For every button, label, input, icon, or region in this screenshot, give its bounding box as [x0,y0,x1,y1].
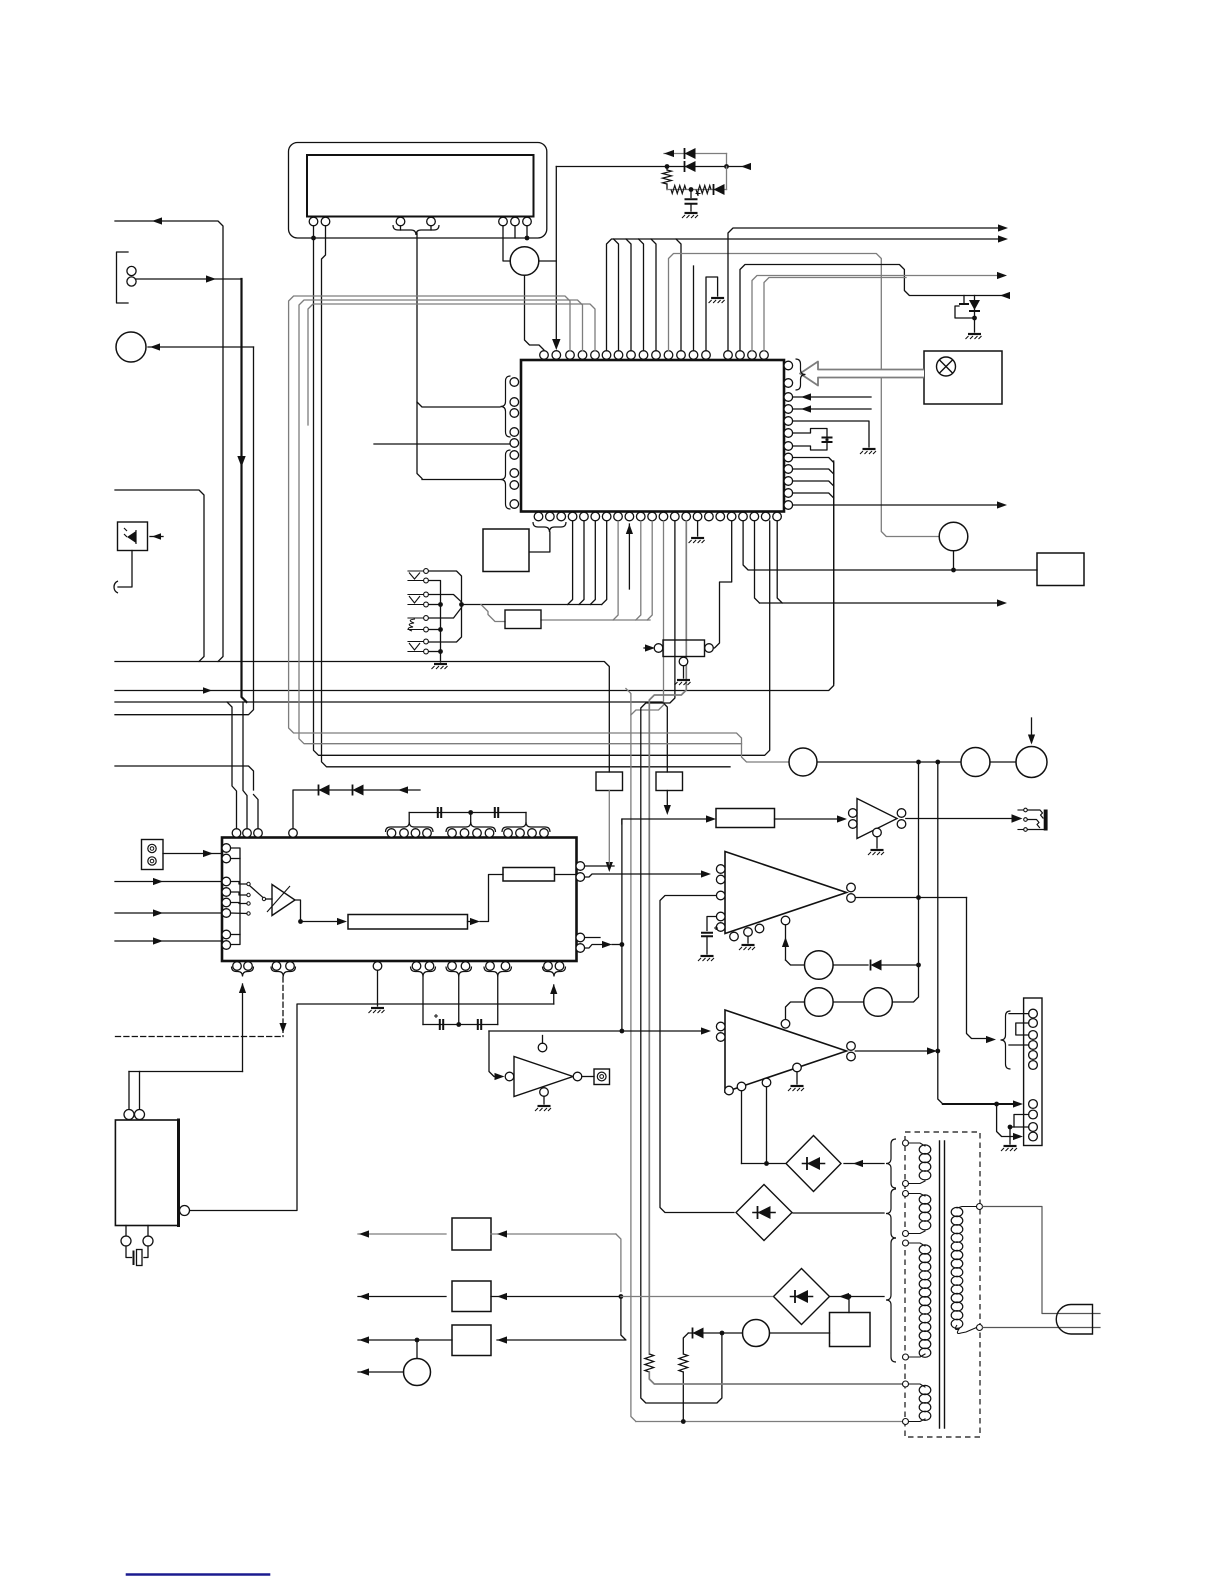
wire diode down resistor [683,1333,688,1354]
brace winding W3 [886,1238,896,1362]
wire main line y166 [556,166,748,168]
ground CN2 [434,663,447,665]
wire delay out arrow [468,921,473,923]
wire A4 gnd [796,1072,798,1084]
circle M1 [404,1359,431,1386]
ground U2 bottom [371,1007,384,1009]
wire switch leads [231,882,247,885]
wire BR3 right arrow [831,1296,885,1298]
wire A3 output [855,897,966,899]
arrow into PH1 [150,536,163,538]
brace U2 bot pins1-2 [232,967,254,977]
junction input line bus [620,1029,625,1034]
wide gray arrow to U1 [800,362,924,386]
wire A3 pin ground [747,936,749,943]
diode D1 [684,148,686,159]
wire A4 output arrow to bus [855,1050,929,1052]
CN3 pin stubs [1009,1013,1029,1015]
display pins right trio [499,217,508,226]
wire gray winding4 bottom [636,1421,903,1423]
circle VR4 [961,748,990,777]
wire U1 top pin merge [651,239,656,351]
wire A3 to VR1 with up arrow [785,925,787,960]
wire inverter feed [489,1031,500,1077]
op-amp A3 bottom slope pins [730,932,739,941]
wire U1 right pin12 arrow [793,504,998,506]
wire U2 pin t1 lead [227,702,237,829]
wire arrow up into U2 b1 [242,984,244,1072]
wire U1 pin to ground jog [706,277,718,351]
resistor R2 [671,186,686,194]
wire U2 internal left net [231,848,240,945]
wire CN2 bus b [429,581,441,663]
brace U2 bot group4 [446,967,472,977]
capacitor C6 [478,1019,481,1030]
wire U1 right pin5 to ground [793,421,869,447]
wire U1 bottom merge arrow y603 [755,521,760,603]
wire BR3 left gray [621,1296,773,1298]
op-amp A3 lower pins [716,912,725,921]
arrow on top branch [664,150,674,157]
wire U1 pins10-11 gray curls [636,521,641,620]
capacitor C1 polarized [690,190,692,198]
brace U2 top group2 [386,822,434,832]
wire CN5 to bus with arrow [136,278,242,280]
arrow into VR5 [1031,718,1033,742]
trimmer RV1 [654,644,663,653]
winding W4 terminals [903,1381,909,1387]
wire RV1 to ground [683,666,685,678]
wire left bus y490 loop [115,490,204,662]
IC U1 bottom pins [534,512,543,521]
junction cap bus [468,810,473,815]
wire VR row [817,761,961,763]
wire A1 out to delay [295,900,301,922]
wire gray line to box F1 [358,1233,446,1235]
ground right pin5 [863,448,876,450]
resistor box headphone [716,809,775,828]
ground RV1 [677,679,690,681]
U4 bottom pins [121,1236,131,1246]
wire U1 bottom pin18 to right box [743,521,1037,570]
wire left bus y714 jog [115,702,254,715]
op-amp A4 input pins [716,1022,725,1031]
wire headphone feed corner [622,819,712,824]
wire CN3 to pin4 arrow [997,1104,1016,1137]
diode D2 [684,161,686,172]
inverter A5 input pin [505,1072,514,1081]
wire bus to CN3 pin1 arrow [943,1103,1016,1105]
wire U1 pin5 left net [308,304,595,425]
wire gray bus 631 [626,689,636,1422]
IC U2 left pins [222,844,231,853]
wire to regulator box [848,1297,850,1313]
diode D3 [713,184,715,195]
AC plug [1056,1305,1092,1335]
winding W1 terminals [903,1140,909,1146]
wire bus918 down [918,762,920,898]
junction F3 line [415,1338,420,1343]
wire U2 cap bus [408,813,410,823]
bus lineout vertical [621,819,623,1031]
box A [596,772,623,791]
wire arrow into U1 right pin4 [793,408,871,410]
IC U1 body [521,360,784,512]
brace U1 bottom pins1-3 [533,522,566,532]
brace U1 right pins 1-2 [796,359,806,390]
wire F3 left [358,1339,452,1341]
wire box A bus lower [608,791,610,865]
wire hp amp ground [876,837,878,848]
ground A4 [791,1085,804,1087]
winding W2 coil [919,1195,931,1204]
junction A4 out [935,1049,940,1054]
wire display brace stem [417,233,422,479]
op-amp A4 gnd pin [793,1063,802,1072]
connector CN2 sections [409,573,420,580]
junction w4 line [681,1419,686,1424]
junction CN3 gnd [1008,1125,1013,1130]
box F2 [452,1281,491,1312]
headphone jack J2 [1024,808,1028,812]
amp A1 triangle [272,885,295,916]
wire low branch [667,189,727,191]
resistor R3 [696,186,711,194]
wire display pin1 chain [314,238,770,755]
U4 right pin [180,1206,190,1216]
brace U1 left group2 [501,450,511,509]
wire HV circle tap [539,260,557,262]
op-amp A4 triangle [725,1010,847,1092]
wire F2 right [491,1296,621,1298]
wire U2 out4 arrow to bus [585,945,604,949]
winding W4 coil [919,1385,931,1394]
brace winding W2 [886,1189,896,1238]
wire primary top to plug [983,1207,1101,1314]
photo-interrupter box PH1 [118,522,148,551]
inverter output pin [573,1072,582,1081]
wire VR1 to diode [833,964,868,966]
circle VR7 [805,988,834,1017]
display HV circle [510,247,539,276]
wire A3 cap net [707,917,716,931]
wire VR4-VR5 [990,761,1016,763]
diode glyph inside PH1 [127,531,136,543]
junction bus938 [935,760,940,765]
junction display left pins [311,236,316,241]
ground A3 [742,944,755,946]
wire U1 pin gray to circle VR2 [669,254,940,537]
circle RL1 [743,1320,770,1347]
wire inverter gnd [543,1096,545,1104]
wire left bus y661 to box A riser [115,662,609,773]
headphone amp A2 [849,809,858,818]
wire opamp2 input line [489,1030,707,1032]
resistor R5 in gray bus [645,1354,654,1372]
wire inverter out [582,1076,594,1078]
ground U1 top [711,297,724,299]
wire F1 right gray [491,1233,616,1235]
arrow into IC U1 pin2 [552,339,560,350]
wire left bus y690 long [115,461,834,691]
display left pin stubs [313,226,315,238]
resistor R1 vertical [666,167,668,171]
wire VR6-VR7 [833,1001,864,1003]
brace U2 top group3 [446,822,496,832]
wire U1 bottom pin8 gray [613,521,618,620]
connector jack J3 [594,1069,610,1085]
wire harness S to B2 [481,605,505,622]
capacitor C5 polarized [440,1019,443,1030]
wire U1 left pin5 stub [374,443,510,445]
brace U2 bot group3 [411,967,436,977]
brace U2 bot group5 [484,967,512,977]
op-amp A3 mid pin [716,891,725,900]
wire bus917 down to VR6 [892,898,918,1003]
op-amp A3 output pins [847,883,856,892]
wire U1 pin12 jog [631,521,664,715]
op-amp A3 triangle [725,852,847,934]
U4 top pins [124,1110,134,1120]
junction d-cluster right [724,164,729,169]
wire U1 top pin764 gray [764,278,906,351]
U4 bottom stubs [125,1226,127,1237]
junction bus918 [916,760,921,765]
wire U1 pin15 ground [697,521,699,536]
wire U1 pin stub floating [693,266,695,351]
wire U1 pin4 left net [299,300,742,744]
wire CN2 bus a [429,571,462,642]
crystal X2 [126,1246,132,1258]
box right K1 [1037,553,1084,586]
wire U2 pin t3 lead [254,795,259,829]
op-amp A4 slope pin [781,1020,790,1029]
wire BR1 right arrow [844,1163,884,1165]
wire CN3 ground [1009,1127,1011,1144]
bridge rectifier BR1 [786,1136,841,1192]
switch SW1 contacts [247,882,250,885]
diode D5 [692,1328,694,1339]
wire U2 bottom cap bus [422,977,424,1025]
ground hp amp [871,849,884,851]
wire U1 top pin merge [639,239,644,351]
IC U1 left pins [510,378,519,387]
wire bus938 down [938,762,943,1104]
wire VR2 to junction [953,551,955,570]
diode line above U2 [293,790,420,829]
IC U1 top pins [540,351,549,360]
op-amp A4 bottom pins [725,1086,734,1095]
box U4 [115,1120,179,1226]
wire vertical from J1 line down [253,347,255,702]
junction A1 out [298,919,303,924]
connector CN1 [142,840,164,870]
capacitor C4 [495,807,498,818]
IC U2 body [222,838,577,962]
inverter top pin [538,1043,547,1052]
switch lever [250,886,263,898]
wire A3 feedback to bus660 [660,896,734,1213]
lamp symbol [937,357,956,376]
brace winding W1 [886,1139,896,1188]
wire U2 out1 stub [585,865,614,867]
ground C7 [701,955,714,957]
junction bridge1 feed [764,1161,769,1166]
wire top branch [664,153,727,155]
circle VR2 [939,522,968,551]
wire U1 pin17 trimmer loop [710,521,732,648]
circle VR5 [1016,747,1047,778]
op-amp A3 input pins [716,865,725,874]
wire into circle J1 with arrow [148,346,254,348]
wire PH1 to edge connector arc [118,551,132,588]
wire to motor circle [416,1340,418,1359]
connector CN5 pins [127,266,136,275]
primary terminals [977,1204,983,1210]
ceramic resonator X1 [793,429,827,451]
IC U1 right pins [784,361,793,370]
wire RL1 left [722,1332,743,1334]
internal resistor box [503,868,555,882]
wire U1 left group1 stub [417,402,500,407]
wire U1 top pin merge [626,239,631,351]
junction CN3 feed [994,1102,999,1107]
circle VR1 [805,951,834,980]
junction VR2 [951,568,956,573]
primary coil [951,1207,963,1216]
wire hp out to jack [906,818,1012,820]
wire arrow into U1 right pin3 [793,396,871,398]
display pins left pair [309,217,318,226]
IC U2 top pins [232,829,241,838]
wire U1 top pin merge [676,239,681,351]
wire box B2 line [541,619,650,621]
wire RL1 right [770,1332,830,1334]
bridge rectifier BR2 [736,1185,792,1241]
ground inverter [538,1105,551,1107]
op-amp A4 output pins [847,1042,856,1051]
display outer shield box [289,143,547,239]
inverter A5 triangle [514,1057,573,1097]
display body [307,155,534,217]
wire line to box F2 [358,1296,446,1298]
junction CN2 out [459,602,464,607]
arrow line end right [741,163,751,170]
junction harness [525,236,530,241]
box F3 [452,1325,491,1356]
box B2 [505,610,541,629]
transistor Q1 [963,296,965,305]
junction RL1 line [720,1331,725,1336]
diode D4 [870,960,872,971]
op-amp A3 slope pin4 [781,916,790,925]
ground CN3 [1004,1145,1017,1147]
wire resistor to hp amp [775,818,844,820]
connector CN5 bracket [117,252,129,303]
winding W2 terminals [903,1191,909,1197]
winding W3 coil [919,1245,931,1254]
capacitor C7 polarized [701,933,713,936]
inverter bottom pin [540,1088,549,1097]
wire U1 pin3 left net [289,296,789,762]
circle J1 [116,332,146,362]
wire U2 out3 stub [585,937,600,939]
wire U2 out2 to opamp1 [585,874,707,877]
CN3 top pins [1029,1009,1038,1018]
wire primary bottom to plug [983,1327,1101,1329]
wire HV circle to U1 pin1 [525,275,545,350]
junction bottom cap bus [456,1022,461,1027]
box F1 [452,1218,491,1250]
wire arrow input U2 b [115,912,222,914]
box B [656,772,683,791]
circle VR6 [864,988,893,1017]
junction BR3 right [847,1294,852,1299]
wire U1 top bus y239 [607,239,1000,351]
circle VR3 [789,748,817,776]
wire HV circle left [503,226,510,261]
delay line box [348,915,468,930]
wire U1 top arrow y228 [728,228,999,351]
wire diode branch [688,1332,722,1334]
IC U2 right pins [576,862,585,871]
dashed arrow down from U2 [282,977,284,1037]
wire arrow input U2 a [115,881,222,883]
wire brace to box small [530,532,550,552]
bridge rectifier BR3 [774,1269,830,1325]
wire A4 pins to bridge1 [741,1091,743,1164]
IC U2 bottom pins [233,962,242,971]
junction bus F [619,1294,624,1299]
ground Q1 [968,333,981,335]
wire U1 top arrow y275 [752,276,997,351]
wire diode to bus [882,964,919,966]
wire top-left output with arrow [115,221,223,662]
wire left bus y702 to box B riser [115,702,667,772]
brace U2 bot pins3-4 [271,967,296,977]
wire left bus y766 [115,766,254,790]
arrow left on transistor line [1000,292,1010,299]
box small B1 [483,529,529,572]
arrow into trimmer RV1 [644,647,652,649]
wire U1 bottom pins4-7 harness [568,521,573,605]
junction low branch [689,187,694,192]
brace U2 bot pins12-13 [543,967,566,977]
display middle brace [393,225,439,235]
arrow box A bus down [606,862,613,872]
wire riser to box U4 pins [129,1071,243,1073]
wire to delay box arrow [301,921,341,923]
lamp box [924,351,1002,404]
CN3 bottom pins [1029,1100,1038,1109]
display right pin stubs [514,226,516,238]
wire BR2 right [793,1212,884,1214]
wire U1 pin13 to bus 640 [641,521,722,1403]
wire U1 pin9 arrow line [628,524,630,589]
wire bus F down to F3 [497,1297,626,1341]
wire long loop from U4 right pin [189,1004,554,1211]
winding W1 coil [919,1145,931,1154]
heavy bus down from CN5 [242,279,247,702]
wire U1 top pin merge [614,239,619,351]
wire M1 arrow [358,1371,404,1373]
wire CN1 to U2 arrow [163,853,222,855]
wire arrow up into U2 b12 [553,985,555,1004]
arrow box B bus down [664,805,671,815]
junction bus965 [916,963,921,968]
brace CN3 [1001,1011,1011,1069]
junction A3 out bus917 [916,895,921,900]
